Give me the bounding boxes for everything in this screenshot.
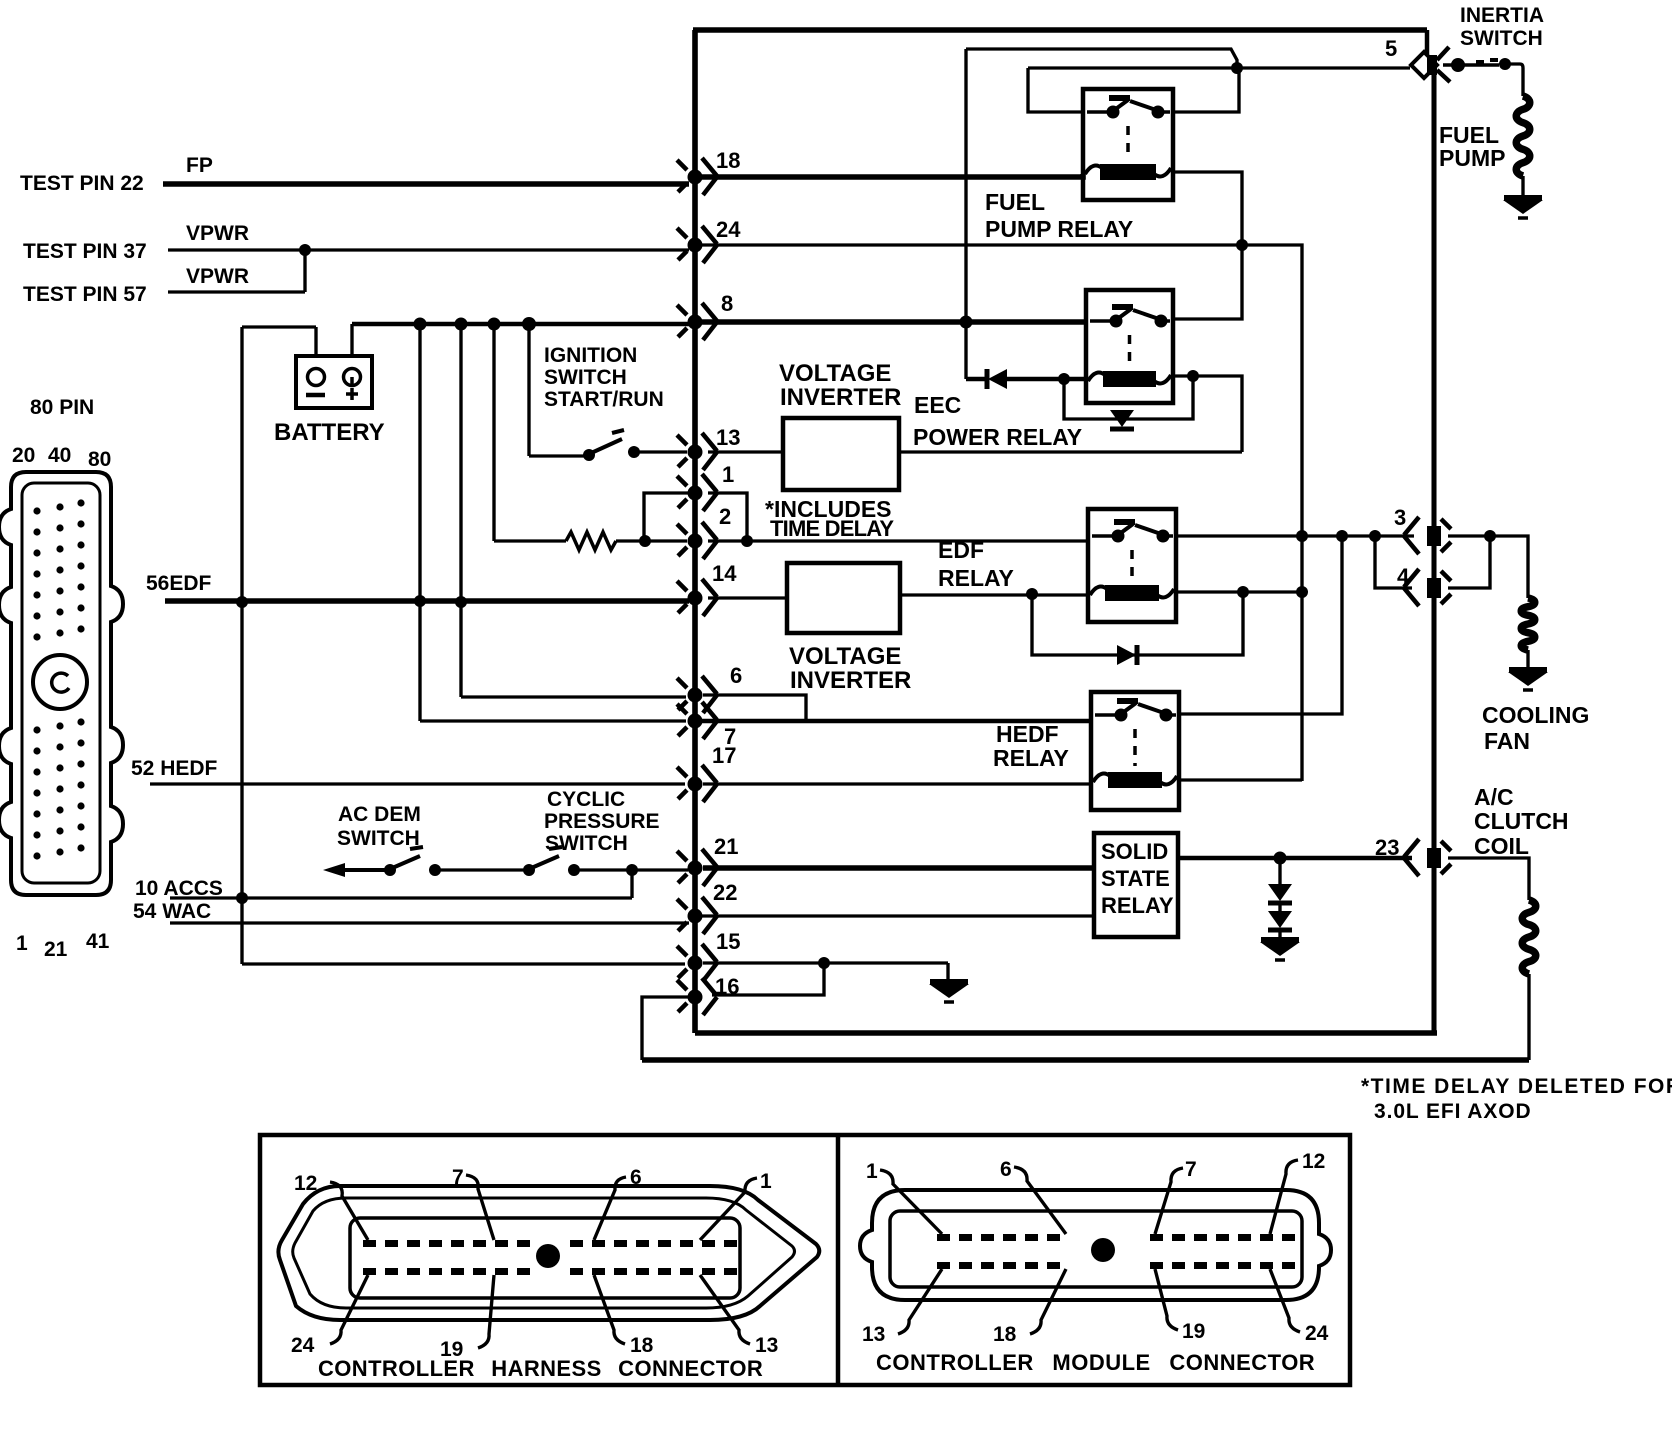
junction 56EDF x vert A	[414, 595, 426, 607]
EEC power relay armature dashed link	[1128, 335, 1132, 365]
wire pin 23 to A/C clutch coil	[1448, 858, 1529, 900]
HEDF relay switch contacts and blade	[1095, 701, 1176, 722]
svg-text:SWITCH: SWITCH	[1460, 27, 1543, 50]
pin 21 connector	[677, 849, 717, 886]
junction pin 24 node	[1236, 239, 1248, 251]
junction EDF coil left / clamp loop	[1026, 588, 1038, 600]
pin 7 connector	[677, 702, 717, 739]
wire main bus (controller pins)	[692, 30, 698, 1033]
svg-text:FP: FP	[186, 154, 213, 177]
HEDF relay armature dashed link	[1133, 729, 1137, 766]
junction EDF coil x VPWR vertical	[1296, 586, 1308, 598]
EEC power relay switch contacts and blade	[1090, 307, 1170, 328]
wire fuel pump to ground	[1521, 176, 1524, 196]
wire pin 22 to solid state relay	[702, 913, 1094, 916]
wire to fuel pump relay switch	[1028, 68, 1083, 112]
svg-text:TIME DELAY: TIME DELAY	[770, 516, 894, 541]
svg-text:80 PIN: 80 PIN	[30, 396, 94, 419]
svg-text:TEST PIN 57: TEST PIN 57	[23, 283, 147, 306]
pin 13 connector	[677, 433, 717, 470]
wire riser test pin 57 to 37	[303, 250, 306, 292]
inertia switch	[1443, 58, 1511, 72]
svg-text:20: 20	[12, 444, 35, 467]
svg-text:SWITCH: SWITCH	[337, 827, 420, 850]
pin 14 connector	[677, 579, 717, 616]
wire vertical to diode	[966, 377, 986, 381]
svg-text:19: 19	[1182, 1320, 1205, 1343]
leader module 13	[898, 1269, 942, 1334]
svg-text:18: 18	[993, 1323, 1017, 1346]
pin 2 connector	[677, 522, 717, 559]
A/C clutch coil	[1522, 900, 1536, 974]
junction resistor / pin1 loop	[639, 535, 651, 547]
svg-text:21: 21	[44, 938, 68, 961]
leader harness 13	[700, 1275, 750, 1344]
wire to clamp diodes	[1278, 858, 1281, 884]
wire pin 7 to HEDF relay switch	[702, 719, 1091, 723]
wire inverter 1 output	[899, 450, 1242, 453]
wire ignition switch to pin 13	[634, 450, 687, 453]
bottom panel divider	[836, 1135, 841, 1385]
svg-text:SOLID: SOLID	[1101, 839, 1168, 864]
HEDF relay box	[1091, 692, 1179, 810]
wire FP test pin 22 to pin 18	[163, 181, 689, 187]
wire bottom return line 2	[642, 1057, 1529, 1063]
wire fuel pump relay switch output up	[1173, 70, 1239, 112]
junction pin 3 / pin 4 split	[1369, 530, 1381, 542]
leader harness 19	[478, 1275, 494, 1348]
wire pin 13 to voltage inverter	[708, 450, 783, 453]
svg-text:56EDF: 56EDF	[146, 572, 212, 595]
wire resistor to pin 2	[616, 539, 687, 542]
junction EEC coil left / clamp loop	[1058, 373, 1070, 385]
wire cyclic switch to pin 21	[574, 868, 688, 871]
wire 52 HEDF to pin 17	[150, 782, 685, 785]
wire to ground (pin 15)	[946, 963, 949, 980]
pin 4 connector	[1404, 569, 1451, 606]
svg-text:VOLTAGE: VOLTAGE	[789, 643, 901, 670]
leader harness 24	[330, 1275, 368, 1344]
leader module 24	[1270, 1269, 1300, 1332]
svg-text:CLUTCH: CLUTCH	[1474, 808, 1569, 834]
diode EEC coil feed	[987, 369, 1007, 389]
wire vert A to pin 7	[418, 324, 421, 721]
diode EEC clamp	[1110, 410, 1134, 429]
wire battery negative down-run	[240, 327, 243, 964]
junction SSR output / clamp diodes	[1274, 852, 1287, 865]
diode clamp 1	[1268, 884, 1292, 903]
cooling fan coil	[1521, 598, 1535, 650]
EEC power relay coil winding	[1088, 371, 1171, 387]
EDF relay coil winding	[1090, 585, 1174, 601]
wire HEDF coil right to VPWR vertical	[1179, 778, 1302, 781]
svg-text:HEDF: HEDF	[996, 721, 1059, 747]
EDF relay switch contacts and blade	[1092, 522, 1173, 543]
resistor (time delay)	[566, 532, 616, 550]
controller harness connector shell outer	[278, 1186, 819, 1320]
wire fuel pump relay coil to EEC switch	[1173, 172, 1242, 319]
svg-text:STATE: STATE	[1101, 866, 1170, 891]
wire between clamp diodes	[1278, 903, 1281, 911]
wire pin 8 to EEC power relay switch	[702, 319, 1086, 325]
leader harness 6	[594, 1177, 626, 1240]
junction battery bus D	[522, 317, 536, 331]
svg-text:VPWR: VPWR	[186, 265, 249, 288]
junction battery bus A	[414, 318, 427, 331]
wire pin 16 to bottom return line 2	[642, 997, 688, 1060]
svg-text:6: 6	[1000, 1158, 1012, 1181]
svg-text:13: 13	[862, 1323, 885, 1346]
pin 17 connector	[677, 765, 717, 802]
leader module 12	[1270, 1160, 1298, 1234]
controller harness pin rows	[363, 1240, 737, 1275]
junction 56EDF x neg run	[236, 596, 248, 608]
wire pin 17 to HEDF coil	[703, 781, 1091, 784]
controller module connector shell outer	[860, 1190, 1331, 1300]
svg-text:COIL: COIL	[1474, 833, 1529, 859]
svg-text:PRESSURE: PRESSURE	[544, 810, 660, 833]
pin 16 connector	[677, 978, 717, 1015]
svg-text:23: 23	[1375, 835, 1399, 860]
svg-text:21: 21	[714, 834, 738, 859]
wire pin 1 left loop	[644, 493, 692, 541]
wire battery positive bus	[352, 322, 689, 326]
voltage inverter 2 box	[787, 563, 900, 633]
svg-text:8: 8	[721, 291, 733, 316]
fuel pump relay coil winding	[1085, 164, 1171, 180]
battery	[296, 356, 372, 408]
wire VPWR test pin 37 to pin 24	[168, 248, 689, 251]
svg-text:BATTERY: BATTERY	[274, 419, 385, 446]
wire VPWR long vertical	[1242, 245, 1302, 781]
pin 5 inline connector	[1411, 47, 1450, 82]
pin 6 connector	[677, 676, 717, 713]
wire 56EDF to pin 14	[165, 598, 689, 604]
svg-text:6: 6	[630, 1166, 642, 1189]
ground (SSR clamp)	[1260, 940, 1300, 960]
svg-text:IGNITION: IGNITION	[544, 344, 637, 367]
svg-text:22: 22	[713, 880, 737, 905]
junction switch row / ACCS riser	[626, 864, 638, 876]
svg-text:1: 1	[866, 1160, 878, 1183]
controller harness connector inner rect	[350, 1218, 740, 1298]
solid state relay box	[1094, 833, 1178, 937]
svg-text:VOLTAGE: VOLTAGE	[779, 360, 891, 387]
svg-text:RELAY: RELAY	[993, 745, 1069, 771]
wire right-hand bus	[1431, 72, 1436, 1035]
wire corner down to pin 5	[1425, 30, 1429, 54]
wire inverter 2 output to EDF coil	[900, 593, 1088, 596]
svg-text:6: 6	[730, 663, 742, 688]
pin 22 connector	[677, 897, 717, 934]
junction 56EDF x vert B	[455, 596, 467, 608]
svg-text:AC DEM: AC DEM	[338, 803, 421, 826]
svg-text:24: 24	[291, 1334, 315, 1357]
wire to resistor	[494, 539, 566, 542]
pin 15 connector	[677, 944, 717, 981]
svg-text:INVERTER: INVERTER	[790, 667, 911, 694]
wire 54 WAC to pin 22	[170, 921, 689, 924]
junction EEC coil right / clamp loop	[1187, 370, 1199, 382]
wire bottom return line	[695, 1030, 1437, 1036]
wire pin 24 (VPWR) right	[702, 243, 1242, 246]
wire to cooling fan	[1490, 536, 1528, 598]
svg-text:7: 7	[452, 1166, 464, 1189]
wire riser to ACCS line	[630, 870, 633, 898]
80-pin connector pin dots upper	[33, 499, 84, 640]
controller module pin rows	[937, 1234, 1295, 1269]
svg-text:2: 2	[719, 504, 731, 529]
svg-text:TEST PIN 22: TEST PIN 22	[20, 172, 144, 195]
svg-text:24: 24	[1305, 1322, 1329, 1345]
svg-text:24: 24	[716, 217, 741, 242]
svg-text:INERTIA: INERTIA	[1460, 4, 1544, 27]
svg-text:PUMP RELAY: PUMP RELAY	[985, 216, 1133, 242]
wire 10 ACCS	[170, 896, 632, 899]
HEDF relay coil winding	[1093, 772, 1177, 788]
wire loop to pin 4	[1375, 536, 1412, 588]
bottom panel frame	[260, 1135, 1350, 1385]
svg-text:EEC: EEC	[914, 392, 961, 418]
wire battery negative to down-run	[242, 325, 316, 328]
ignition switch	[583, 430, 640, 461]
wire to ignition switch pivot	[529, 454, 584, 457]
cyclic pressure switch	[523, 847, 580, 876]
svg-text:3: 3	[1394, 505, 1406, 530]
svg-text:1: 1	[760, 1170, 772, 1193]
80-pin connector pin dots lower	[33, 718, 84, 859]
svg-text:12: 12	[1302, 1150, 1325, 1173]
leader module 7	[1155, 1168, 1183, 1234]
wire pin 1 right loop	[708, 493, 747, 541]
wire EDF clamp diode loop	[1032, 592, 1243, 655]
fuel pump motor coil	[1516, 96, 1530, 176]
svg-text:PUMP: PUMP	[1439, 145, 1505, 171]
leader harness 18	[594, 1275, 625, 1344]
pin 23 connector	[1404, 839, 1451, 876]
wire cooling fan to ground	[1526, 650, 1529, 668]
wire diode to EEC coil	[1006, 377, 1086, 381]
EDF relay box	[1088, 509, 1176, 622]
wire battery positive terminal	[350, 324, 353, 356]
controller harness connector shell middle	[293, 1198, 795, 1308]
svg-text:FUEL: FUEL	[985, 189, 1045, 215]
svg-text:POWER RELAY: POWER RELAY	[913, 424, 1082, 450]
svg-text:RELAY: RELAY	[1101, 893, 1174, 918]
voltage inverter 1 box	[783, 418, 899, 490]
fuel pump relay armature dashed link	[1126, 126, 1130, 158]
svg-text:*TIME DELAY DELETED FOR: *TIME DELAY DELETED FOR	[1361, 1075, 1672, 1098]
junction EDF coil right / clamp loop	[1237, 586, 1249, 598]
junction EDF out / HEDF riser	[1336, 530, 1348, 542]
junction battery bus B	[455, 318, 468, 331]
svg-text:80: 80	[88, 448, 111, 471]
junction pins 3/4 merge	[1484, 530, 1496, 542]
svg-text:7: 7	[1185, 1158, 1197, 1181]
svg-text:RELAY: RELAY	[938, 565, 1014, 591]
diode clamp 2	[1268, 911, 1292, 930]
wire pin 18 to fuel pump relay coil	[702, 174, 1083, 177]
leader module 6	[1014, 1167, 1066, 1234]
leader harness 12	[330, 1182, 368, 1240]
wire pin 6 loop to pin 7	[703, 695, 806, 721]
junction pin 8 x VPWR vertical	[960, 316, 973, 329]
leader harness 7	[466, 1175, 494, 1240]
wire top line to inertia switch	[693, 27, 1427, 33]
svg-text:3.0L EFI AXOD: 3.0L EFI AXOD	[1374, 1100, 1532, 1123]
svg-text:13: 13	[755, 1334, 778, 1357]
wire pin 3 right	[1448, 534, 1490, 537]
ground (fuel pump)	[1503, 198, 1543, 218]
svg-text:TEST PIN 37: TEST PIN 37	[23, 240, 147, 263]
wire pin 21 to solid state relay	[703, 865, 1094, 871]
svg-text:A/C: A/C	[1474, 784, 1514, 810]
svg-text:4: 4	[1397, 564, 1410, 589]
svg-text:SWITCH: SWITCH	[544, 366, 627, 389]
wire vert B to pin 6	[459, 324, 462, 697]
EEC power relay box	[1086, 290, 1173, 403]
fuel pump relay box	[1083, 89, 1173, 200]
wire EEC clamp diode loop	[1064, 376, 1193, 419]
junction pin 5 node	[1231, 62, 1243, 74]
wire solid state relay output to pin 23	[1178, 856, 1412, 860]
svg-text:17: 17	[712, 743, 736, 768]
wire to pin 6	[461, 695, 686, 698]
wire VPWR test pin 57	[168, 290, 305, 293]
svg-text:18: 18	[630, 1334, 654, 1357]
ground (pins 15/16)	[929, 982, 969, 1002]
controller module connector inner rect	[890, 1211, 1302, 1287]
svg-text:54 WAC: 54 WAC	[133, 900, 211, 923]
80-pin connector keyway circle	[33, 655, 87, 709]
svg-text:14: 14	[712, 561, 737, 586]
wire EDF switch output to pin 3	[1176, 534, 1414, 537]
wire pin 15 right	[703, 961, 948, 964]
wire pin 5 feed (line B)	[1028, 66, 1410, 69]
fuel pump relay switch contacts and blade	[1087, 98, 1170, 119]
svg-text:1: 1	[722, 462, 734, 487]
svg-text:FAN: FAN	[1484, 728, 1530, 754]
ground (cooling fan)	[1508, 670, 1548, 690]
svg-text:START/RUN: START/RUN	[544, 388, 664, 411]
svg-text:VPWR: VPWR	[186, 222, 249, 245]
wire battery negative terminal	[314, 327, 317, 356]
wire between switches	[435, 868, 524, 871]
junction EDF out x VPWR vertical	[1296, 530, 1308, 542]
svg-text:41: 41	[86, 930, 110, 953]
wire VPWR vertical	[964, 49, 967, 379]
wire vert C to resistor	[492, 324, 495, 541]
svg-text:15: 15	[716, 929, 740, 954]
svg-text:INVERTER: INVERTER	[780, 384, 901, 411]
wire pin 4 loop up	[1448, 536, 1490, 588]
svg-text:5: 5	[1385, 36, 1397, 61]
svg-text:52 HEDF: 52 HEDF	[131, 757, 218, 780]
wire pin 14 to voltage inverter 2	[708, 596, 787, 599]
svg-text:18: 18	[716, 148, 740, 173]
wire to pin 7	[420, 719, 686, 722]
pin 1 connector	[677, 474, 717, 511]
svg-text:COOLING: COOLING	[1482, 702, 1589, 728]
wire vert D to ignition switch	[527, 324, 530, 456]
80-pin connector shell outer	[0, 472, 123, 895]
svg-text:CYCLIC: CYCLIC	[547, 788, 625, 811]
wire VPWR link (line A)	[966, 49, 1237, 66]
junction pin 1 / pin 2	[741, 535, 753, 547]
wire A/C clutch coil down	[1527, 974, 1530, 1060]
svg-text:CONTROLLER MODULE CONNECTOR: CONTROLLER MODULE CONNECTOR	[876, 1350, 1315, 1375]
svg-text:12: 12	[294, 1172, 317, 1195]
svg-text:CONTROLLER HARNESS CONNECTOR: CONTROLLER HARNESS CONNECTOR	[318, 1356, 763, 1381]
svg-text:40: 40	[48, 444, 71, 467]
wire HEDF switch output riser	[1179, 536, 1342, 714]
wire clamp diodes to ground	[1278, 930, 1281, 938]
leader harness 1	[700, 1178, 757, 1240]
pin 24 connector	[677, 226, 717, 263]
leader module 19	[1155, 1269, 1178, 1330]
EDF relay armature dashed link	[1130, 550, 1134, 579]
wire loop to pin 16	[712, 963, 824, 995]
junction battery bus C	[488, 318, 501, 331]
wire to pin 15	[242, 962, 685, 965]
svg-text:13: 13	[716, 425, 740, 450]
svg-text:1: 1	[16, 932, 28, 955]
wire inertia switch to fuel pump	[1505, 64, 1523, 96]
pin 8 connector	[677, 303, 717, 340]
wire pin 2 to EDF relay switch	[708, 537, 1088, 541]
80-pin connector shell inner	[22, 483, 100, 883]
svg-text:EDF: EDF	[938, 537, 984, 563]
junction VPWR lines	[299, 244, 311, 256]
leader module 18	[1030, 1269, 1066, 1334]
wire EEC coil right down to inverter output	[1173, 376, 1242, 452]
junction pin 15 / pin 16 loop	[818, 957, 830, 969]
svg-text:SWITCH: SWITCH	[545, 832, 628, 855]
diode EDF clamp	[1117, 645, 1137, 665]
leader module 1	[880, 1170, 942, 1234]
AC DEM switch	[323, 847, 441, 877]
pin 18 connector	[677, 158, 717, 195]
junction ACCS x neg run	[236, 892, 248, 904]
wire EDF coil right	[1176, 590, 1302, 593]
pin 3 connector	[1404, 517, 1451, 554]
